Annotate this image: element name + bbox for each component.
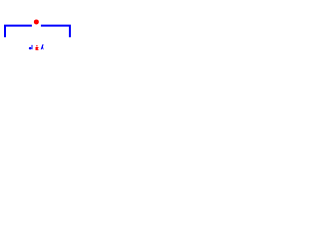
- value label glyph 3 (blue lambda-shape): [41, 44, 44, 49]
- wire: bracket right segment with right cap leg: [41, 26, 70, 38]
- node marker: red data point on interval: [34, 19, 39, 24]
- wire: bracket left segment with left cap leg: [5, 26, 32, 38]
- value label glyph 1 (blue d-shape): [29, 45, 33, 50]
- value label glyph 2 (red k-shape): [36, 45, 39, 50]
